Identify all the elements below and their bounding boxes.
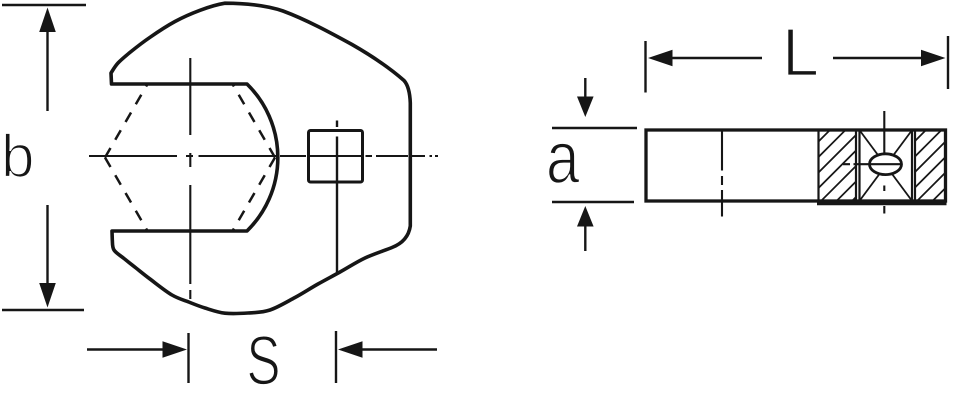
- oval horizontal centerline: [843, 163, 901, 165]
- square hole block: borders: [858, 130, 860, 201]
- dimension b: top extension line: [2, 4, 86, 6]
- dimension L: right extension tick: [947, 36, 949, 89]
- dimension b: up arrow: [46, 30, 48, 111]
- wrench head outline (front view): [111, 3, 410, 313]
- dimension S: left extension tick: [187, 333, 189, 383]
- side view thick bottom edge under section: [817, 201, 947, 205]
- side view jaw centerline: [721, 131, 723, 217]
- dimension a: top extension line: [552, 127, 637, 129]
- dimension b: bottom extension line: [2, 309, 84, 312]
- svg-text:S: S: [247, 322, 281, 397]
- section hatch block right: border: [914, 130, 916, 201]
- section hatch block left: borders: [817, 130, 819, 201]
- dimension L: right arrow (points right): [833, 57, 921, 59]
- dimension S: right arrow line: [362, 348, 437, 350]
- oval vertical centerline: [883, 111, 885, 214]
- dimension b: down arrow: [46, 205, 48, 285]
- dimension S: right extension tick: [335, 331, 337, 383]
- svg-text:L: L: [782, 16, 819, 91]
- vertical centerline through jaw center: [189, 58, 191, 299]
- square drive hole: [309, 131, 363, 183]
- dimension a: up arrow below: [584, 226, 586, 251]
- square hole block: X cross: [861, 132, 912, 200]
- hex opening (dashed) edge top-right: [233, 84, 276, 158]
- dimension S: left arrow line: [87, 348, 164, 350]
- section hatch block left: hatching: [758, 100, 953, 202]
- vertical centerline through square drive: [336, 121, 338, 274]
- hex opening (dashed) edge top-left: [105, 84, 148, 158]
- ball detent oval: [870, 154, 902, 175]
- hex opening (dashed) edge bottom-right: [233, 158, 276, 232]
- hex opening (dashed) edge bottom-left: [105, 158, 148, 232]
- dimension L: left extension tick: [644, 41, 646, 93]
- dimension a: down arrow above: [584, 78, 586, 98]
- section hatch block right: hatching: [854, 100, 960, 202]
- svg-text:a: a: [546, 116, 580, 199]
- dimension a: bottom extension line: [552, 201, 634, 203]
- horizontal centerline (front view): [89, 155, 438, 157]
- svg-text:b: b: [1, 123, 35, 190]
- dimension L: left arrow (points left): [671, 57, 762, 59]
- side view body rectangle: [646, 130, 946, 201]
